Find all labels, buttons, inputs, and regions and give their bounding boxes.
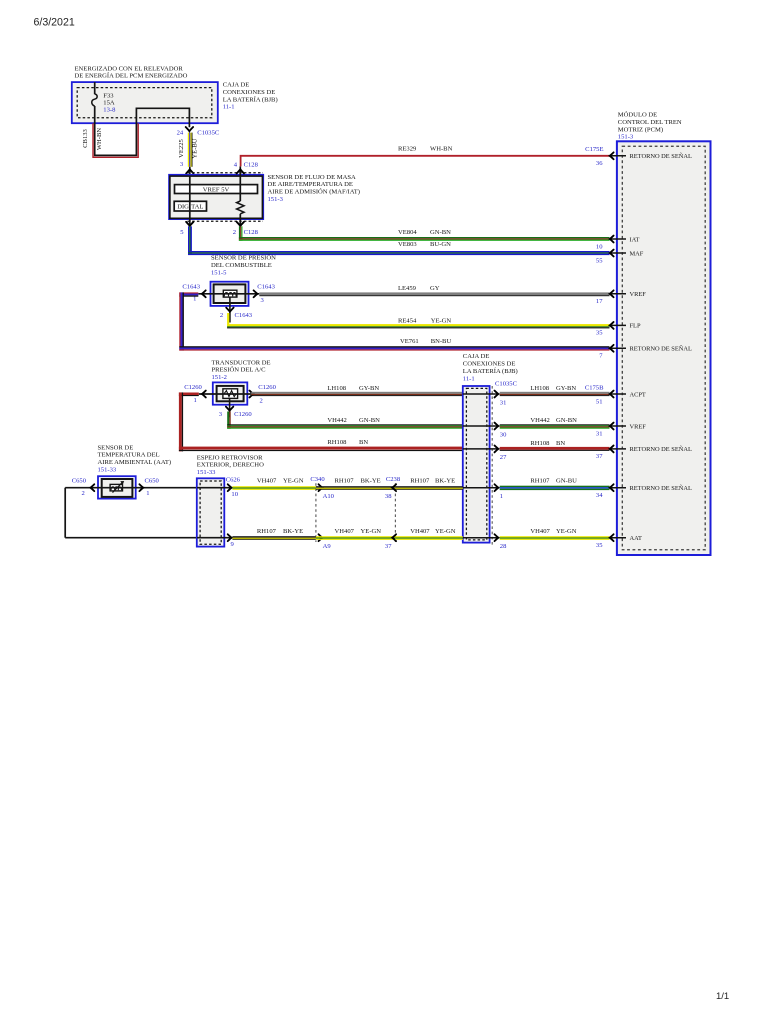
- svg-text:ACPT: ACPT: [630, 391, 646, 398]
- svg-text:LA BATERÍA (BJB): LA BATERÍA (BJB): [463, 367, 518, 375]
- svg-text:C650: C650: [145, 478, 160, 485]
- svg-text:1/1: 1/1: [716, 991, 729, 1002]
- svg-text:MÓDULO DE: MÓDULO DE: [618, 111, 657, 119]
- svg-text:1: 1: [146, 490, 149, 497]
- svg-text:RETORNO DE SEÑAL: RETORNO DE SEÑAL: [630, 152, 692, 160]
- connector C340 dashed line: [310, 476, 325, 542]
- PCM pin 34 RETORNO DE SEÑAL: [596, 484, 692, 499]
- connector C1643 pin 3 arrow: [254, 284, 276, 304]
- svg-text:C1643: C1643: [182, 284, 200, 291]
- label VE225: [178, 138, 185, 157]
- connector C1035C pin 1 arrow: [495, 484, 504, 500]
- svg-text:BU-GN: BU-GN: [430, 241, 451, 248]
- svg-text:151-3: 151-3: [618, 134, 634, 141]
- svg-text:C1260: C1260: [258, 384, 276, 391]
- svg-text:GN-BN: GN-BN: [359, 417, 380, 424]
- wire CB133 WH-BN loop (red): [93, 123, 138, 157]
- svg-text:VH442: VH442: [327, 417, 346, 424]
- svg-text:C626: C626: [226, 476, 241, 483]
- svg-text:ESPEJO RETROVISOR: ESPEJO RETROVISOR: [197, 454, 263, 461]
- svg-text:37: 37: [596, 453, 603, 460]
- PCM pin 10 IAT: [596, 236, 640, 251]
- PCM pin 31 VREF: [596, 423, 646, 438]
- wire RH108 BN: [179, 392, 610, 451]
- connector C1643 pin 1 arrow: [182, 284, 205, 303]
- svg-text:MOTRIZ (PCM): MOTRIZ (PCM): [618, 126, 663, 133]
- wire RE329 WH-BN: [241, 146, 610, 167]
- connector C238 dashed line: [386, 476, 401, 542]
- svg-text:BN: BN: [359, 439, 368, 446]
- svg-text:28: 28: [500, 543, 507, 550]
- svg-text:RH107: RH107: [335, 477, 355, 484]
- svg-text:C1035C: C1035C: [197, 129, 220, 136]
- svg-text:FLP: FLP: [630, 323, 641, 330]
- svg-text:GN-BU: GN-BU: [556, 477, 577, 484]
- MAF internal wire right with resistor: [237, 176, 244, 226]
- svg-text:A10: A10: [323, 493, 335, 500]
- svg-text:BK-YE: BK-YE: [435, 477, 455, 484]
- connector C1035C dashed line: [492, 381, 517, 547]
- svg-text:1: 1: [194, 397, 197, 404]
- svg-text:C175E: C175E: [585, 146, 603, 153]
- PCM pin 37 RETORNO DE SEÑAL: [596, 445, 692, 460]
- svg-text:VE804: VE804: [398, 229, 417, 236]
- MAF/IAT sensor label text: [268, 174, 361, 203]
- page number: [716, 991, 729, 1002]
- connector C1643 pin 2 arrow: [220, 308, 253, 319]
- svg-text:C1260: C1260: [234, 411, 252, 418]
- connector C1035C pin 28 arrow: [495, 534, 508, 550]
- svg-text:C650: C650: [72, 478, 87, 485]
- BJB label text: [223, 82, 278, 111]
- svg-text:7: 7: [599, 353, 603, 360]
- svg-text:LH108: LH108: [530, 385, 549, 392]
- connector C340 pin A9 arrow: [319, 534, 332, 550]
- wire CB133 WH-BN loop (black): [95, 106, 190, 155]
- wire RH107 BK-YE (C626 to C340 bottom): [232, 528, 316, 540]
- fuel pressure sensor label text: [211, 254, 276, 277]
- svg-text:TRANSDUCTOR DE: TRANSDUCTOR DE: [212, 359, 271, 366]
- connector C1035C pin 31 arrow: [495, 391, 507, 407]
- svg-text:51: 51: [596, 398, 603, 405]
- fuel pressure sensor symbol: [198, 282, 259, 323]
- svg-text:3: 3: [261, 297, 265, 304]
- svg-text:VE225: VE225: [178, 138, 185, 157]
- PCM pin 51 ACPT: [585, 384, 646, 405]
- svg-text:VH407: VH407: [335, 528, 355, 535]
- PCM pin 35 FLP: [596, 322, 641, 337]
- svg-text:RH107: RH107: [530, 477, 550, 484]
- svg-text:1: 1: [500, 493, 503, 500]
- A/C pressure transducer symbol: [199, 382, 252, 417]
- svg-text:CAJA DE: CAJA DE: [463, 353, 490, 360]
- connector C1035C pin 30 arrow: [495, 423, 508, 439]
- connector C238 pin 37 arrow: [385, 534, 396, 550]
- AAT sensor label text: [98, 444, 172, 473]
- svg-text:CONEXIONES DE: CONEXIONES DE: [223, 89, 276, 96]
- svg-text:RETORNO DE SEÑAL: RETORNO DE SEÑAL: [630, 484, 692, 492]
- svg-text:AAT: AAT: [630, 535, 643, 542]
- svg-text:2: 2: [233, 229, 236, 236]
- wire VE804 GN-BN: [239, 226, 610, 241]
- svg-text:RH107: RH107: [410, 477, 430, 484]
- VREF 5V block: [175, 185, 258, 194]
- svg-text:151-2: 151-2: [212, 374, 227, 381]
- PCM pin 55 MAF: [596, 250, 644, 265]
- svg-text:151-5: 151-5: [211, 269, 227, 276]
- PCM module label text: [618, 111, 682, 141]
- svg-text:YE-GN: YE-GN: [283, 477, 304, 484]
- wire VH407 YE-GN (C626 to C340): [232, 477, 316, 490]
- exterior mirror box: [197, 478, 225, 546]
- svg-text:GY-BN: GY-BN: [359, 385, 379, 392]
- connector C650 pin 1 labels: [145, 478, 160, 497]
- connector C128 pins 5 and 2 arrows: [180, 222, 258, 236]
- svg-text:BK-YE: BK-YE: [361, 477, 381, 484]
- wire C650 pin 1 to mirror: [136, 484, 197, 491]
- svg-text:IAT: IAT: [630, 236, 640, 243]
- svg-text:C1643: C1643: [235, 312, 253, 319]
- connector C128 pin 3 arrow: [180, 161, 194, 176]
- svg-text:PRESIÓN DEL A/C: PRESIÓN DEL A/C: [212, 366, 267, 374]
- svg-text:37: 37: [385, 543, 392, 550]
- svg-text:RH108: RH108: [530, 440, 550, 447]
- svg-text:GN-BN: GN-BN: [556, 417, 577, 424]
- svg-text:AIRE AMBIENTAL (AAT): AIRE AMBIENTAL (AAT): [98, 459, 172, 466]
- svg-text:LH108: LH108: [327, 385, 346, 392]
- wire C650 pin 2 to loop: [65, 484, 197, 537]
- svg-text:F33: F33: [103, 92, 114, 99]
- svg-text:SENSOR DE FLUJO DE MASA: SENSOR DE FLUJO DE MASA: [268, 174, 357, 181]
- svg-text:31: 31: [500, 399, 507, 406]
- svg-text:VH407: VH407: [530, 528, 550, 535]
- svg-text:VREF: VREF: [630, 423, 647, 430]
- svg-text:RETORNO DE SEÑAL: RETORNO DE SEÑAL: [630, 445, 692, 453]
- svg-text:VH407: VH407: [410, 528, 430, 535]
- battery junction box BJB (top): [72, 82, 218, 123]
- wire LH108 GY-BN: [251, 385, 609, 396]
- connector C128 pin 4 arrow: [234, 162, 259, 176]
- svg-text:GY-BN: GY-BN: [556, 385, 576, 392]
- svg-text:YE-GN: YE-GN: [435, 528, 456, 535]
- svg-text:VH407: VH407: [257, 477, 277, 484]
- svg-text:11-1: 11-1: [223, 104, 235, 111]
- svg-text:SENSOR DE: SENSOR DE: [98, 444, 134, 451]
- svg-text:2: 2: [220, 312, 223, 319]
- svg-text:30: 30: [500, 431, 507, 438]
- svg-text:AIRE DE ADMISIÓN (MAF/IAT): AIRE DE ADMISIÓN (MAF/IAT): [268, 188, 361, 196]
- svg-text:RETORNO DE SEÑAL: RETORNO DE SEÑAL: [630, 345, 692, 353]
- svg-text:27: 27: [500, 454, 507, 461]
- AAT sensor thermistor symbol: [98, 476, 136, 498]
- svg-text:VH442: VH442: [530, 417, 549, 424]
- connector C626 pin 9 arrow: [228, 534, 235, 548]
- svg-text:9: 9: [231, 541, 235, 548]
- connector C1260 pin 1 arrow: [184, 384, 206, 404]
- svg-text:CONEXIONES DE: CONEXIONES DE: [463, 361, 516, 368]
- svg-text:10: 10: [596, 243, 603, 250]
- svg-text:BN: BN: [556, 440, 565, 447]
- exterior mirror label text: [197, 454, 264, 476]
- wire VH407 YE-GN (BJB to PCM): [500, 528, 610, 540]
- wire VE761 BN-BU: [179, 292, 609, 350]
- svg-text:38: 38: [385, 493, 392, 500]
- svg-text:YE-BU: YE-BU: [192, 138, 199, 158]
- svg-text:LE459: LE459: [398, 285, 417, 292]
- svg-text:4: 4: [234, 162, 238, 169]
- PCM pin 35 AAT: [596, 534, 642, 549]
- label YE-BU: [192, 138, 199, 158]
- svg-text:LA BATERÍA (BJB): LA BATERÍA (BJB): [223, 95, 278, 103]
- battery junction box BJB (lower): [463, 386, 490, 543]
- svg-text:35: 35: [596, 542, 603, 549]
- connector C340 pin A10 arrow: [319, 484, 335, 500]
- svg-text:C340: C340: [310, 476, 325, 483]
- svg-text:C1035C: C1035C: [495, 381, 518, 388]
- PCM pin 7 RETORNO DE SEÑAL: [599, 345, 692, 360]
- svg-text:C1260: C1260: [184, 384, 202, 391]
- wire VH407 YE-GN (C238 to BJB bottom): [395, 528, 462, 540]
- svg-text:2: 2: [260, 397, 263, 404]
- connector C238 pin 38 arrow: [385, 484, 396, 500]
- svg-text:55: 55: [596, 257, 603, 264]
- svg-text:GY: GY: [430, 285, 440, 292]
- label WH-BN: [96, 128, 103, 151]
- connector C1035C pin 24 arrow: [177, 127, 220, 136]
- date text: [34, 17, 75, 29]
- svg-text:RH107: RH107: [257, 528, 277, 535]
- wire VH442 GN-BN: [227, 412, 609, 429]
- svg-text:151-33: 151-33: [197, 469, 216, 476]
- svg-text:C128: C128: [244, 162, 259, 169]
- wire VE225 YE-BU vertical: [188, 133, 193, 167]
- svg-text:VE761: VE761: [400, 338, 419, 345]
- svg-text:RE329: RE329: [398, 146, 417, 153]
- svg-text:24: 24: [177, 129, 184, 136]
- svg-text:VREF 5V: VREF 5V: [203, 186, 230, 193]
- svg-text:C128: C128: [244, 229, 259, 236]
- connector C626 pin 10 arrow: [226, 476, 241, 498]
- svg-text:C175B: C175B: [585, 384, 604, 391]
- wire RH107 BK-YE (C238 to BJB): [395, 477, 462, 490]
- svg-text:YE-GN: YE-GN: [431, 317, 452, 324]
- svg-text:RH108: RH108: [327, 439, 347, 446]
- title: energizado con el relevador: [75, 65, 188, 79]
- svg-text:C1643: C1643: [257, 284, 275, 291]
- wire RH107 GN-BU (BJB to PCM): [500, 477, 610, 490]
- svg-text:3: 3: [180, 161, 184, 168]
- svg-text:36: 36: [596, 160, 603, 167]
- svg-text:VREF: VREF: [630, 291, 647, 298]
- svg-text:EXTERIOR, DERECHO: EXTERIOR, DERECHO: [197, 462, 264, 469]
- svg-text:34: 34: [596, 492, 603, 499]
- wire LE459 GY: [259, 285, 609, 296]
- svg-text:3: 3: [219, 411, 223, 418]
- MAF/IAT sensor box: [169, 173, 263, 222]
- svg-text:DE AIRE/TEMPERATURA DE: DE AIRE/TEMPERATURA DE: [268, 181, 353, 188]
- connector C1035C pin 27 arrow: [495, 445, 508, 461]
- svg-text:151-33: 151-33: [98, 467, 117, 474]
- svg-text:CONTROL DEL TREN: CONTROL DEL TREN: [618, 119, 682, 126]
- PCM module box: [617, 141, 711, 555]
- svg-text:BN-BU: BN-BU: [431, 338, 452, 345]
- svg-text:11-1: 11-1: [463, 375, 475, 382]
- svg-text:A9: A9: [323, 543, 332, 550]
- svg-text:GN-BN: GN-BN: [430, 229, 451, 236]
- fuse F33 15A circuit breaker: [92, 82, 116, 113]
- MAF internal wire left: [189, 176, 191, 226]
- svg-text:17: 17: [596, 298, 603, 305]
- DIGITAL block: [174, 201, 206, 211]
- svg-text:CAJA DE: CAJA DE: [223, 82, 250, 89]
- wire VH407 YE-GN (C340 to C238 bottom): [316, 528, 396, 540]
- svg-text:CB133: CB133: [82, 128, 89, 147]
- wire RE454 YE-GN: [227, 313, 609, 328]
- svg-text:MAF: MAF: [630, 250, 644, 257]
- svg-text:151-3: 151-3: [268, 196, 284, 203]
- svg-text:35: 35: [596, 330, 603, 337]
- svg-text:DEL COMBUSTIBLE: DEL COMBUSTIBLE: [211, 262, 272, 269]
- svg-text:ENERGIZADO CON EL RELEVADOR: ENERGIZADO CON EL RELEVADOR: [75, 65, 184, 72]
- svg-text:31: 31: [596, 430, 603, 437]
- svg-text:13-8: 13-8: [103, 107, 116, 114]
- svg-text:6/3/2021: 6/3/2021: [34, 17, 75, 29]
- wire VE803 BU-GN: [188, 226, 610, 255]
- svg-text:YE-GN: YE-GN: [361, 528, 382, 535]
- svg-text:WH-BN: WH-BN: [96, 128, 103, 151]
- PCM pin 36 RETORNO DE SEÑAL: [585, 146, 692, 167]
- label CB133: [82, 128, 89, 147]
- mirror feedthrough wires: [197, 488, 231, 538]
- svg-text:SENSOR DE PRESIÓN: SENSOR DE PRESIÓN: [211, 254, 276, 262]
- svg-text:WH-BN: WH-BN: [430, 146, 453, 153]
- svg-text:10: 10: [231, 491, 238, 498]
- BJB feedthrough wires: [463, 394, 499, 538]
- PCM pin 17 VREF: [596, 290, 646, 305]
- svg-text:RE454: RE454: [398, 317, 417, 324]
- svg-text:YE-GN: YE-GN: [556, 528, 577, 535]
- svg-text:DE ENERGÍA DEL PCM ENERGIZADO: DE ENERGÍA DEL PCM ENERGIZADO: [75, 72, 188, 80]
- connector C1260 pin 2 arrow: [250, 384, 277, 404]
- svg-text:2: 2: [82, 490, 85, 497]
- svg-text:TEMPERATURA DEL: TEMPERATURA DEL: [98, 452, 160, 459]
- svg-text:VE803: VE803: [398, 241, 417, 248]
- A/C pressure transducer label text: [212, 359, 271, 381]
- svg-text:BK-YE: BK-YE: [283, 528, 303, 535]
- connector C650 pin 2 labels: [72, 478, 87, 497]
- svg-text:C238: C238: [386, 476, 401, 483]
- svg-text:5: 5: [180, 229, 184, 236]
- connector C1260 pin 3 arrow: [219, 407, 253, 418]
- wire RH107 BK-YE (C340 to C238): [316, 477, 396, 490]
- svg-text:15A: 15A: [103, 99, 115, 106]
- BJB lower label text: [463, 353, 518, 382]
